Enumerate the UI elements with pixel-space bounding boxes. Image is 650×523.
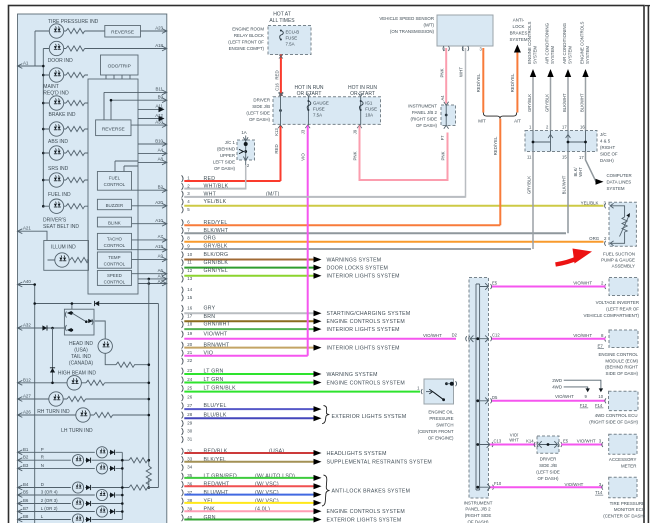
svg-text:FUEL IND: FUEL IND bbox=[48, 192, 71, 198]
svg-text:BLINK: BLINK bbox=[108, 220, 121, 225]
wire VIO/WHT C12 to ECM bbox=[492, 338, 606, 340]
svg-text:ENGINE CONTROLS SYSTEM: ENGINE CONTROLS SYSTEM bbox=[327, 509, 405, 515]
node row 20 bracket bbox=[182, 342, 184, 349]
node row 40 bracket bbox=[182, 514, 184, 521]
svg-text:B12: B12 bbox=[23, 377, 31, 382]
svg-text:25: 25 bbox=[187, 386, 192, 391]
node row 17 bracket bbox=[182, 313, 184, 320]
svg-text:F10: F10 bbox=[494, 481, 502, 486]
svg-text:SIDE OF: SIDE OF bbox=[600, 152, 618, 157]
svg-text:P: P bbox=[41, 447, 44, 452]
svg-text:PNK: PNK bbox=[440, 68, 445, 77]
node row 7 bracket bbox=[182, 227, 184, 234]
svg-text:F12: F12 bbox=[580, 403, 588, 408]
svg-text:34: 34 bbox=[187, 465, 192, 470]
svg-text:HOT IN RUN: HOT IN RUN bbox=[294, 85, 323, 91]
svg-text:K14: K14 bbox=[526, 439, 534, 444]
svg-text:N: N bbox=[41, 463, 44, 468]
svg-text:GRN/YEL: GRN/YEL bbox=[204, 268, 229, 274]
svg-text:ENGINE CONTROL: ENGINE CONTROL bbox=[598, 352, 638, 357]
node row 1 bracket bbox=[182, 175, 184, 182]
svg-text:21: 21 bbox=[187, 350, 192, 355]
svg-text:23: 23 bbox=[187, 368, 192, 373]
arrow air conditioning system (col3) bbox=[565, 69, 571, 131]
svg-text:C16: C16 bbox=[275, 82, 280, 90]
node row 23 bracket bbox=[182, 368, 184, 375]
svg-text:DRIVER: DRIVER bbox=[253, 98, 270, 103]
box TEMP CONTROL bbox=[97, 252, 131, 268]
svg-text:A4: A4 bbox=[440, 95, 445, 101]
svg-text:PUMP & GAUGE: PUMP & GAUGE bbox=[601, 258, 635, 263]
svg-text:IG1: IG1 bbox=[365, 101, 373, 106]
svg-text:J3: J3 bbox=[301, 129, 306, 134]
node row 5 bracket bbox=[182, 206, 184, 213]
svg-text:4 & 5: 4 & 5 bbox=[600, 139, 611, 144]
svg-text:VIO/WHT: VIO/WHT bbox=[565, 482, 584, 487]
svg-text:18: 18 bbox=[187, 322, 192, 327]
svg-text:INTERIOR LIGHTS SYSTEM: INTERIOR LIGHTS SYSTEM bbox=[327, 274, 400, 280]
node row 10 bracket bbox=[182, 251, 184, 258]
svg-text:SIDE OF DASH): SIDE OF DASH) bbox=[606, 371, 639, 376]
svg-text:ENGINE OIL: ENGINE OIL bbox=[428, 410, 454, 415]
svg-text:(USA): (USA) bbox=[74, 348, 88, 354]
svg-text:4WD: 4WD bbox=[552, 385, 562, 390]
svg-text:B10: B10 bbox=[155, 138, 163, 143]
svg-text:HIGH BEAM IND: HIGH BEAM IND bbox=[58, 371, 96, 377]
svg-text:INTERIOR LIGHTS SYSTEM: INTERIOR LIGHTS SYSTEM bbox=[327, 327, 400, 333]
wire row2 vertical to J/C1 bbox=[245, 165, 247, 189]
svg-text:DRIVER: DRIVER bbox=[540, 457, 557, 462]
box instrument panel J/B 2 (top) bbox=[441, 105, 456, 126]
svg-text:(RIGHT SIDE: (RIGHT SIDE bbox=[465, 513, 492, 518]
svg-text:B8: B8 bbox=[23, 514, 29, 519]
pin D2 / C12 bbox=[466, 335, 492, 342]
svg-text:LH TURN IND: LH TURN IND bbox=[61, 428, 93, 434]
svg-text:(RIGHT: (RIGHT bbox=[600, 145, 615, 150]
box FUEL CONTROL bbox=[97, 172, 131, 191]
svg-text:ACCESSORY: ACCESSORY bbox=[609, 457, 637, 462]
svg-text:VIO/WHT: VIO/WHT bbox=[555, 394, 574, 399]
svg-text:RED/YEL: RED/YEL bbox=[510, 73, 515, 92]
svg-text:VEHICLE COMPARTMENT): VEHICLE COMPARTMENT) bbox=[584, 313, 640, 318]
svg-text:ANTI-: ANTI- bbox=[513, 18, 525, 23]
svg-text:17: 17 bbox=[562, 125, 567, 130]
svg-text:A32: A32 bbox=[23, 323, 31, 328]
svg-text:(BEHIND RIGHT: (BEHIND RIGHT bbox=[605, 365, 638, 370]
svg-text:WHT: WHT bbox=[459, 67, 464, 77]
svg-text:PRESSURE: PRESSURE bbox=[429, 416, 453, 421]
svg-text:ENGINE CONTROLS SYSTEM: ENGINE CONTROLS SYSTEM bbox=[327, 380, 405, 386]
svg-text:A20: A20 bbox=[155, 200, 163, 205]
node row 2 bracket bbox=[182, 183, 184, 190]
svg-text:TACHO: TACHO bbox=[107, 236, 123, 241]
svg-text:B3: B3 bbox=[23, 463, 29, 468]
svg-text:ENGINE COMPT): ENGINE COMPT) bbox=[229, 46, 265, 51]
svg-text:AIR CONDITIONING: AIR CONDITIONING bbox=[562, 22, 567, 64]
svg-text:VIO/WHT: VIO/WHT bbox=[573, 333, 592, 338]
connector chevrons at J/B fuse pins bbox=[278, 93, 363, 129]
svg-text:ENGINE CONTROLS: ENGINE CONTROLS bbox=[527, 21, 532, 64]
svg-text:E5: E5 bbox=[492, 281, 498, 286]
node row 30 bracket bbox=[182, 428, 184, 435]
svg-text:WARNING SYSTEM: WARNING SYSTEM bbox=[327, 372, 378, 378]
svg-text:INSTRUMENT: INSTRUMENT bbox=[464, 500, 493, 505]
box ILLUM IND bbox=[44, 241, 89, 271]
wire BLK/WHT pin17 to computer data lines bbox=[586, 152, 597, 182]
box cluster inner module bbox=[88, 79, 138, 294]
svg-text:BLK/WHT: BLK/WHT bbox=[580, 93, 585, 112]
svg-text:SYSTEM: SYSTEM bbox=[607, 186, 625, 191]
arrow engine controls system (col4) bbox=[582, 69, 588, 131]
diode arrows A11 A12 bbox=[159, 107, 165, 113]
box engine room relay block (ECU-B fuse) bbox=[268, 26, 311, 55]
box TACHO CONTROL bbox=[97, 233, 131, 249]
svg-text:19: 19 bbox=[187, 331, 192, 336]
svg-text:VIO/WHT: VIO/WHT bbox=[423, 333, 442, 338]
svg-text:J/C 1: J/C 1 bbox=[225, 140, 236, 145]
svg-text:COMPUTER: COMPUTER bbox=[607, 173, 632, 178]
svg-text:OF DASH): OF DASH) bbox=[214, 166, 236, 171]
svg-text:A23: A23 bbox=[155, 25, 163, 30]
gear row B3 N bbox=[18, 466, 23, 471]
svg-text:A7: A7 bbox=[158, 234, 164, 239]
wire RED/YEL brace to row 6 bbox=[499, 119, 501, 226]
svg-text:WHT: WHT bbox=[578, 167, 583, 177]
svg-text:SYSTEM: SYSTEM bbox=[509, 37, 527, 42]
svg-text:VIO/WHT: VIO/WHT bbox=[573, 281, 592, 286]
pin A26 (left) + LH turn row bbox=[18, 413, 23, 418]
arrow air conditioning system (col2) bbox=[547, 69, 553, 131]
indicator row: DOOR IND bbox=[43, 48, 167, 50]
svg-text:BRAKES: BRAKES bbox=[510, 31, 528, 36]
svg-text:M/T: M/T bbox=[478, 119, 486, 124]
svg-text:J/C: J/C bbox=[600, 132, 607, 137]
node row 33 bracket bbox=[182, 456, 184, 463]
svg-text:11: 11 bbox=[527, 155, 532, 160]
svg-text:SYSTEM: SYSTEM bbox=[585, 46, 590, 64]
svg-text:(LEFT REAR OF: (LEFT REAR OF bbox=[606, 306, 639, 311]
svg-text:29: 29 bbox=[187, 421, 192, 426]
wire: bus x43 row2 down to belt row bbox=[42, 49, 44, 207]
svg-text:15: 15 bbox=[562, 155, 567, 160]
gear row B7 L (OR 2) bbox=[18, 509, 23, 514]
svg-text:26: 26 bbox=[187, 395, 192, 400]
indicator row: ABS IND bbox=[43, 128, 88, 130]
svg-text:T14: T14 bbox=[595, 490, 603, 495]
svg-text:ALL TIMES: ALL TIMES bbox=[269, 18, 295, 24]
wire: odo stubs bbox=[106, 75, 130, 79]
box BLINK bbox=[97, 217, 131, 227]
svg-text:EXTERIOR LIGHTS SYSTEM: EXTERIOR LIGHTS SYSTEM bbox=[332, 414, 407, 420]
svg-text:BRN: BRN bbox=[204, 314, 216, 320]
indicator row: SRS IND bbox=[43, 152, 88, 154]
svg-text:(CANADA): (CANADA) bbox=[69, 361, 94, 367]
fuse IG1 bbox=[360, 96, 362, 126]
svg-text:15: 15 bbox=[187, 295, 192, 300]
box instrument panel J/B 2 (tall) bbox=[469, 278, 489, 499]
diode (A32 row) bbox=[42, 325, 47, 330]
brace M/T A/T bbox=[483, 113, 516, 119]
gear row B2 R bbox=[18, 458, 23, 463]
svg-text:ILLUM IND: ILLUM IND bbox=[51, 245, 76, 251]
svg-text:17: 17 bbox=[579, 155, 584, 160]
svg-text:ASSEMBLY: ASSEMBLY bbox=[612, 263, 635, 268]
pin D5 bbox=[480, 398, 492, 405]
svg-text:31: 31 bbox=[187, 437, 192, 442]
node row 39 bracket bbox=[182, 506, 184, 513]
svg-text:GAUGE: GAUGE bbox=[313, 101, 329, 106]
node row 32 bracket bbox=[182, 448, 184, 455]
node row 25 bracket bbox=[182, 385, 184, 392]
svg-text:17: 17 bbox=[187, 314, 192, 319]
svg-text:A18: A18 bbox=[155, 43, 163, 48]
svg-text:RELAY BLOCK: RELAY BLOCK bbox=[234, 33, 264, 38]
svg-text:(CENTER OF DASH): (CENTER OF DASH) bbox=[603, 514, 645, 519]
svg-text:CONTROL: CONTROL bbox=[104, 262, 126, 267]
wire WHT VSS pin2 down to row 3 bbox=[184, 48, 465, 197]
svg-text:(LEFT FRONT OF: (LEFT FRONT OF bbox=[228, 40, 264, 45]
svg-text:MODULE (ECM): MODULE (ECM) bbox=[605, 358, 638, 363]
wire: left feed bus A1 bbox=[18, 65, 44, 67]
svg-text:E7: E7 bbox=[598, 344, 604, 349]
wire: vertical x158 collector bbox=[157, 304, 159, 488]
svg-text:OF DASH): OF DASH) bbox=[416, 123, 438, 128]
svg-text:SPEED: SPEED bbox=[107, 273, 122, 278]
svg-text:SEAT BELT IND: SEAT BELT IND bbox=[43, 224, 79, 230]
box tire pressure monitor ECU bbox=[490, 486, 602, 488]
svg-text:F14: F14 bbox=[595, 403, 603, 408]
svg-text:C13: C13 bbox=[494, 438, 502, 443]
svg-text:DRIVER'S: DRIVER'S bbox=[43, 218, 67, 224]
svg-text:A11: A11 bbox=[156, 104, 164, 109]
diode (feed row, pointing left) bbox=[95, 301, 100, 306]
svg-text:PANEL J/B 2: PANEL J/B 2 bbox=[412, 110, 438, 115]
svg-text:DASH): DASH) bbox=[600, 158, 614, 163]
indicator row: FUEL IND bbox=[43, 179, 88, 181]
node row 29 bracket bbox=[182, 420, 184, 427]
gear row B1 P bbox=[18, 450, 23, 455]
svg-text:7.5A: 7.5A bbox=[286, 42, 295, 47]
box ODO/TRIP bbox=[101, 55, 139, 75]
node row 16 bracket bbox=[182, 305, 184, 312]
svg-text:SUPPLEMENTAL RESTRAINTS SYSTEM: SUPPLEMENTAL RESTRAINTS SYSTEM bbox=[327, 460, 433, 466]
wire PNK vertical+U (IG1 fuse to J/B2) bbox=[360, 126, 448, 181]
svg-text:ORG: ORG bbox=[589, 236, 600, 241]
svg-text:VIO/WHT: VIO/WHT bbox=[204, 331, 229, 337]
svg-text:CONTROL: CONTROL bbox=[104, 182, 126, 187]
svg-text:GRN/BLK: GRN/BLK bbox=[204, 260, 229, 266]
svg-text:ENGINE CONTROLS: ENGINE CONTROLS bbox=[580, 21, 585, 64]
svg-text:(RIGHT SIDE: (RIGHT SIDE bbox=[410, 117, 437, 122]
svg-text:GRY/BLK: GRY/BLK bbox=[527, 94, 532, 112]
svg-text:4WD CONTROL ECU: 4WD CONTROL ECU bbox=[595, 413, 638, 418]
svg-text:B1: B1 bbox=[23, 447, 29, 452]
pin A32 (left) bbox=[18, 326, 23, 331]
box J/C 4 & 5 bbox=[525, 131, 597, 152]
svg-text:BRAKE IND: BRAKE IND bbox=[49, 112, 76, 118]
svg-text:REVERSE: REVERSE bbox=[102, 126, 125, 132]
svg-text:GRY/BLK: GRY/BLK bbox=[527, 176, 532, 194]
svg-text:B9: B9 bbox=[158, 95, 164, 100]
pin F10 bbox=[480, 484, 494, 491]
svg-text:CONTROL: CONTROL bbox=[104, 243, 126, 248]
fuel sender symbol bbox=[610, 206, 624, 244]
svg-text:D2: D2 bbox=[452, 333, 458, 338]
svg-text:SIDE J/B: SIDE J/B bbox=[539, 463, 557, 468]
wire: high-beam branch x52.5 bbox=[52, 328, 54, 383]
box REVERSE (top) bbox=[105, 26, 141, 38]
svg-text:BLK/ORG: BLK/ORG bbox=[204, 252, 229, 258]
svg-text:A1: A1 bbox=[23, 61, 29, 66]
svg-text:RED/YEL: RED/YEL bbox=[493, 136, 498, 155]
svg-text:VOLTAGE INVERTER: VOLTAGE INVERTER bbox=[596, 300, 639, 305]
svg-text:SWITCH: SWITCH bbox=[436, 423, 453, 428]
svg-text:B6: B6 bbox=[23, 498, 29, 503]
svg-text:OF DASH): OF DASH) bbox=[538, 476, 560, 481]
pin A27 (left) + RH turn row bbox=[18, 397, 23, 402]
svg-text:GRY: GRY bbox=[204, 306, 216, 312]
right panel pins labels bbox=[155, 87, 163, 284]
svg-text:ECU-B: ECU-B bbox=[286, 30, 300, 35]
svg-text:FUSE: FUSE bbox=[313, 107, 325, 112]
svg-text:EXTERIOR LIGHTS SYSTEM: EXTERIOR LIGHTS SYSTEM bbox=[327, 517, 402, 523]
node row 4 bracket bbox=[182, 199, 184, 206]
node row 15 bracket bbox=[182, 294, 184, 301]
svg-text:(RIGHT SIDE OF DASH): (RIGHT SIDE OF DASH) bbox=[589, 419, 638, 424]
wire PNK VSS pin1 to J/B2 A4 bbox=[445, 48, 447, 104]
svg-text:STARTING/CHARGING SYSTEM: STARTING/CHARGING SYSTEM bbox=[327, 311, 411, 317]
svg-text:(LEFT SIDE: (LEFT SIDE bbox=[246, 111, 270, 116]
brace anti-lock rows 35-38 bbox=[322, 475, 330, 506]
indicator row: MAINT REQD IND bbox=[43, 74, 88, 76]
svg-text:VIO/WHT: VIO/WHT bbox=[577, 439, 596, 444]
svg-text:A40: A40 bbox=[23, 279, 31, 284]
svg-text:ENGINE ROOM: ENGINE ROOM bbox=[232, 27, 264, 32]
box driver side J/B bbox=[273, 97, 381, 125]
indicator row: DRIVER'S SEAT BELT IND bbox=[43, 205, 88, 207]
svg-text:FUSE: FUSE bbox=[365, 107, 377, 112]
node row 12 bracket bbox=[182, 267, 184, 274]
node row 36 bracket bbox=[182, 481, 184, 488]
svg-text:24: 24 bbox=[187, 377, 192, 382]
box REVERSE (inner) bbox=[96, 120, 131, 136]
node row 24 bracket bbox=[182, 377, 184, 384]
svg-text:A4: A4 bbox=[158, 148, 164, 153]
svg-text:BLK/WHT: BLK/WHT bbox=[562, 93, 567, 112]
wire VIO vertical (gauge fuse to row 21) bbox=[307, 126, 309, 356]
svg-text:RED: RED bbox=[274, 144, 279, 153]
svg-text:F7: F7 bbox=[440, 135, 445, 141]
svg-text:FUEL SUCTION: FUEL SUCTION bbox=[603, 251, 635, 256]
svg-text:A19: A19 bbox=[155, 244, 163, 249]
svg-text:12: 12 bbox=[187, 268, 192, 273]
node row 26 bracket bbox=[182, 394, 184, 401]
svg-text:TEMP: TEMP bbox=[108, 255, 120, 260]
node row 34 bracket bbox=[182, 464, 184, 471]
next page edge line bbox=[647, 5, 649, 523]
svg-text:AIR CONDITIONING: AIR CONDITIONING bbox=[545, 22, 550, 64]
svg-text:A8: A8 bbox=[158, 157, 164, 162]
svg-text:SYSTEM: SYSTEM bbox=[568, 46, 573, 64]
svg-text:3 (OR 4): 3 (OR 4) bbox=[41, 490, 58, 495]
svg-text:B4: B4 bbox=[23, 482, 29, 487]
svg-text:A/T: A/T bbox=[514, 119, 521, 124]
svg-text:DOOR IND: DOOR IND bbox=[48, 58, 73, 64]
arrow engine controls system (col1) bbox=[530, 69, 536, 131]
svg-text:LEFT SIDE: LEFT SIDE bbox=[213, 160, 235, 165]
svg-text:A9: A9 bbox=[158, 254, 164, 259]
svg-text:C12: C12 bbox=[492, 333, 500, 338]
svg-text:22: 22 bbox=[187, 358, 192, 363]
node row 11 bracket bbox=[182, 259, 184, 266]
svg-text:UPPER: UPPER bbox=[220, 153, 235, 158]
svg-text:SYSTEM: SYSTEM bbox=[533, 46, 538, 64]
node row 18 bracket bbox=[182, 321, 184, 328]
svg-text:16: 16 bbox=[187, 306, 192, 311]
fuse ECU-B bbox=[280, 30, 284, 41]
svg-text:OF ENGINE): OF ENGINE) bbox=[428, 436, 454, 441]
svg-text:ENGINE CONTROLS SYSTEM: ENGINE CONTROLS SYSTEM bbox=[327, 319, 405, 325]
svg-text:HOT AT: HOT AT bbox=[273, 12, 291, 18]
node row 38 bracket bbox=[182, 498, 184, 505]
svg-text:A6: A6 bbox=[158, 268, 164, 273]
svg-text:OF DASH): OF DASH) bbox=[468, 520, 490, 523]
box vehicle speed sensor bbox=[437, 15, 493, 46]
svg-text:A26: A26 bbox=[23, 410, 31, 415]
svg-text:ODO/TRIP: ODO/TRIP bbox=[108, 64, 131, 70]
pin C13 bbox=[480, 441, 494, 448]
box SPEED CONTROL bbox=[97, 271, 131, 286]
wire GRY/BLK JC45 to row 9 bbox=[532, 152, 534, 250]
wire RED vertical (ECU-B to row 1) bbox=[280, 55, 282, 97]
gear row B5 3 (OR 4) bbox=[18, 493, 23, 498]
svg-text:INTERIOR LIGHTS SYSTEM: INTERIOR LIGHTS SYSTEM bbox=[327, 345, 400, 351]
node row 21 bracket bbox=[182, 350, 184, 357]
pin E5 bbox=[480, 283, 492, 290]
gear row B6 2 (OR 3) bbox=[18, 501, 23, 506]
svg-text:TAIL IND: TAIL IND bbox=[71, 354, 91, 360]
LED head/tail ind bbox=[95, 321, 149, 365]
svg-text:A21: A21 bbox=[23, 226, 31, 231]
svg-text:K13: K13 bbox=[274, 128, 279, 136]
svg-text:FUEL: FUEL bbox=[109, 176, 121, 181]
svg-text:CONTROL: CONTROL bbox=[104, 280, 126, 285]
svg-text:DOOR LOCKS SYSTEM: DOOR LOCKS SYSTEM bbox=[327, 265, 389, 271]
svg-text:(M/T): (M/T) bbox=[424, 22, 435, 27]
svg-text:D: D bbox=[41, 482, 44, 487]
svg-text:BLK/WHT: BLK/WHT bbox=[562, 175, 567, 194]
svg-text:13: 13 bbox=[187, 276, 192, 281]
svg-text:10A: 10A bbox=[365, 113, 373, 118]
svg-text:HEADLIGHTS SYSTEM: HEADLIGHTS SYSTEM bbox=[327, 451, 387, 457]
svg-text:10: 10 bbox=[598, 394, 603, 399]
vertical resistor on right bus bbox=[146, 466, 151, 485]
wire: diode feed row y303.5 bbox=[35, 303, 159, 305]
svg-text:RH TURN IND: RH TURN IND bbox=[37, 409, 70, 415]
svg-text:WHT: WHT bbox=[509, 437, 519, 442]
svg-text:YEL/BLK: YEL/BLK bbox=[204, 199, 227, 205]
right side pin rows from module bbox=[104, 92, 167, 283]
svg-text:PANEL J/B 2: PANEL J/B 2 bbox=[465, 507, 491, 512]
diode high beam (up) bbox=[50, 368, 55, 373]
svg-text:OF DASH): OF DASH) bbox=[249, 117, 271, 122]
svg-text:E5: E5 bbox=[563, 439, 569, 444]
svg-text:RED/YEL: RED/YEL bbox=[476, 73, 481, 92]
svg-text:(ON TRANSMISSION): (ON TRANSMISSION) bbox=[390, 29, 435, 34]
wire: bus x35 rows1-A1 bbox=[34, 31, 36, 66]
pins VSS 1 2 3 bbox=[443, 46, 469, 51]
svg-text:27: 27 bbox=[187, 403, 192, 408]
